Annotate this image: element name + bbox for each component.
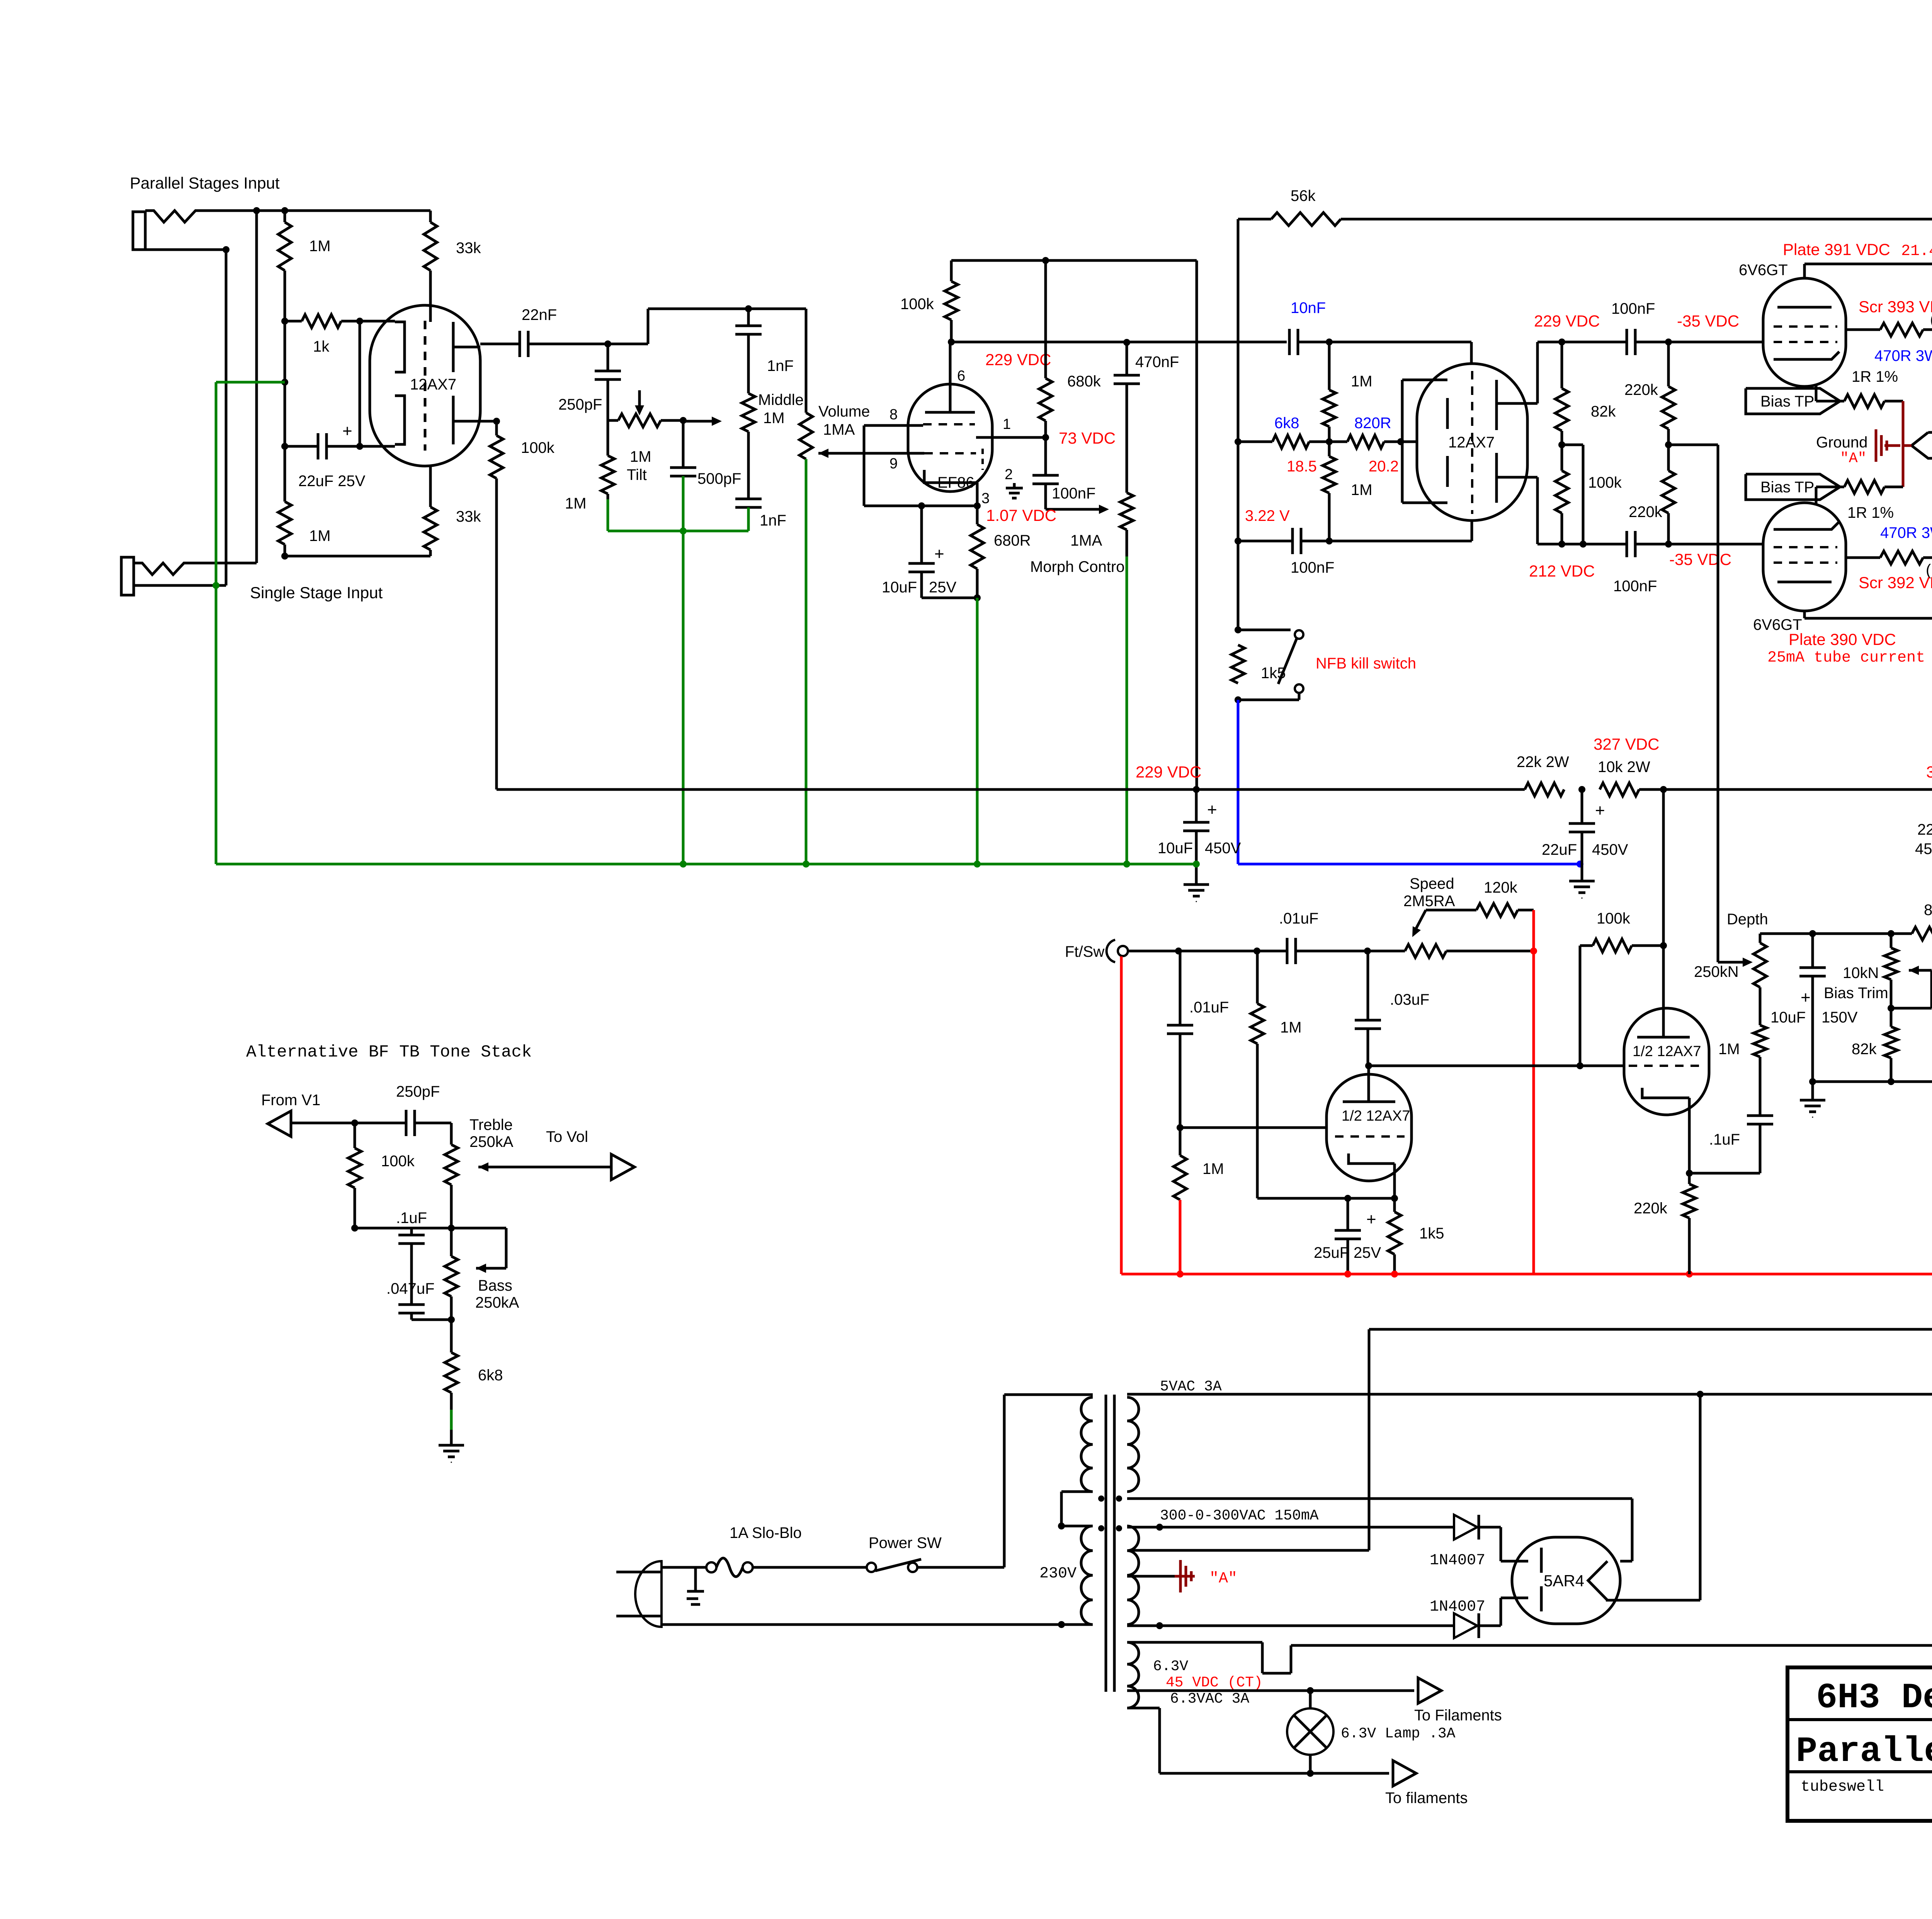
transformer PT 6.3V winding [1127,1642,1139,1708]
wire: PI plate line lower [1537,543,1627,546]
wire: switched live to primary [917,1566,1004,1569]
node: tail node [1235,438,1242,445]
svg-text:470R 3W: 470R 3W [1874,347,1932,364]
resistor 10k 2W [1600,783,1639,796]
svg-text:1R 1%: 1R 1% [1852,368,1898,385]
svg-text:10uF: 10uF [882,579,917,596]
resistor 22k 2W [1525,783,1564,796]
resistor 1M (PI grid lower) [1328,442,1331,456]
tube V6 1/2 12AX7 (osc) [1327,1074,1412,1181]
resistor 1M (lower grid leak) [284,446,286,502]
svg-text:NFB kill switch: NFB kill switch [1316,655,1416,672]
wire: PI plate2 [1497,476,1537,479]
svg-text:1N4007: 1N4007 [1430,1552,1485,1569]
svg-text:150V: 150V [1821,1009,1858,1026]
wire: cathode pin3 [976,483,979,524]
resistor 220k (upper grid) [1667,342,1670,386]
svg-text:100k: 100k [1588,474,1622,491]
wire: primary tap jumper [1061,1490,1093,1493]
resistor 220k (lower grid) [1667,445,1670,471]
potentiometer Treble 250kA [450,1123,453,1145]
wire: green ground from grid node [281,379,288,386]
tube V1 12AX7 [370,305,480,466]
svg-text:1A Slo-Blo: 1A Slo-Blo [730,1524,802,1541]
resistor 100k (V1 plate load) [495,421,498,436]
svg-text:Plate 390 VDC: Plate 390 VDC [1789,630,1896,648]
wire: tilt to middle wiper arrow [683,420,715,423]
svg-text:1M: 1M [1202,1160,1224,1177]
svg-text:+: + [342,422,352,441]
wire: HT bottom to diode [1127,1625,1454,1627]
svg-text:+: + [1207,800,1217,819]
wire: B+ rail 229VDC [497,788,1525,791]
capacitor .1uF (alt) [410,1228,413,1235]
svg-text:73 VDC: 73 VDC [1059,429,1116,447]
node: 1nF top [745,305,752,312]
svg-text:33k: 33k [456,240,481,257]
wire: bias rail [1760,932,1912,935]
svg-text:1M: 1M [565,495,587,512]
resistor 82k (bias top) [1912,927,1932,940]
svg-text:6.3VAC 3A: 6.3VAC 3A [1170,1691,1249,1707]
node: red speed [1530,948,1537,954]
svg-text:Tilt: Tilt [627,466,647,483]
svg-text:Bias Trim: Bias Trim [1824,985,1888,1002]
wire: mains neutral [662,1623,1061,1626]
svg-text:250pF: 250pF [396,1083,440,1100]
5AR4 filament [1588,1561,1607,1600]
wire: EF86 cathode bottom [920,572,923,598]
tube V8 5AR4 rectifier [1512,1537,1620,1624]
wire: trem grid line [1127,950,1287,953]
node: top rail junction b [281,207,288,214]
svg-text:Power SW: Power SW [869,1535,942,1552]
svg-text:45 VDC (CT): 45 VDC (CT) [1166,1674,1263,1691]
svg-text:Treble: Treble [469,1116,513,1133]
wire: osc cathode line [1257,1197,1395,1200]
svg-text:.1uF: .1uF [396,1210,427,1227]
svg-text:100nF: 100nF [1052,485,1095,502]
svg-text:Middle: Middle [758,391,804,408]
svg-text:680R: 680R [994,532,1031,549]
svg-text:22uF: 22uF [1917,821,1932,838]
svg-text:Single Stage Input: Single Stage Input [250,584,383,602]
svg-text:-35 VDC: -35 VDC [1677,312,1739,330]
svg-text:100nF: 100nF [1613,578,1657,595]
capacitor 10uF 450V (preamp filter) [1193,786,1200,793]
capacitor .01uF (shunt) [1179,951,1182,1025]
wire: pin1 to 680k bottom [976,436,1046,439]
potentiometer Speed 2M5RA [1405,944,1446,958]
svg-text:100k: 100k [521,439,555,456]
svg-text:"A": "A" [1840,450,1866,467]
V5 internals [1777,581,1832,584]
svg-text:Scr 392 VDC: Scr 392 VDC [1859,573,1932,592]
wire: morph green down [1126,530,1128,556]
node: V1 grid [356,318,363,325]
svg-text:(.310V): (.310V) [1930,311,1932,328]
node: PI grid2 entry [1397,438,1404,445]
wire: to PI grid corner [1329,341,1471,344]
ground: alt stack [439,1444,464,1447]
svg-text:1k5: 1k5 [1419,1225,1444,1242]
wire: green tone bus [608,530,748,532]
wire: green tone stack left [607,499,609,531]
wire: J1 tip to top rail [209,209,430,212]
ground: EF86 pin2 [1013,483,1016,488]
callout: Bias TP (middle) [1912,432,1932,458]
potentiometer Volume 1MA [805,309,808,413]
node: 100k bottom [1558,541,1565,548]
svg-text:82k: 82k [1852,1041,1877,1058]
svg-text:Plate 391 VDC: Plate 391 VDC [1783,240,1890,259]
wire: 1nF lower green [747,507,750,531]
resistor 33k (lower) [429,466,432,507]
resistor 1M (osc grid leak) [1256,951,1259,1004]
resistor 82k (bias lower) [1890,1008,1893,1027]
svg-text:470nF: 470nF [1135,354,1179,371]
svg-text:500pF: 500pF [697,470,741,487]
svg-text:.1uF: .1uF [1709,1131,1740,1148]
resistor 1k5 (NFB) [1231,645,1245,683]
resistor 470R 3W (screen V5) [1846,556,1880,559]
wire: lower line to tube [1329,540,1472,543]
svg-text:1nF: 1nF [767,357,794,374]
svg-text:5AR4: 5AR4 [1544,1572,1584,1590]
wire: EF86 B+ rail [951,259,1197,262]
wire: 1M to red bus [1179,1200,1182,1274]
V6 cathode hook [1349,1153,1395,1164]
tube V4 6V6GT (upper) [1763,278,1846,386]
svg-text:100k: 100k [900,296,934,313]
capacitor 1nF (upper) [747,309,750,326]
wire: volume green down [805,459,808,864]
node: PI grid node [1326,339,1333,345]
tube V3 12AX7 (phase inverter) [1417,364,1527,521]
node: osc grid [1177,1124,1184,1131]
svg-text:tubeswell: tubeswell [1801,1778,1884,1796]
svg-text:+: + [1595,801,1605,820]
svg-text:Volume: Volume [818,403,870,420]
PI internals [1402,379,1447,381]
node: EF86 plate [948,339,955,345]
svg-text:300-0-300VAC 150mA: 300-0-300VAC 150mA [1160,1507,1319,1524]
wire: mid node to plate2 line [1562,444,1583,446]
svg-text:1/2 12AX7: 1/2 12AX7 [1342,1108,1410,1124]
wire: 5V bottom to rectifier [1127,1497,1632,1500]
node: NFB lower [1235,538,1242,544]
V1 internals: grids/plates/cathodes [395,322,405,372]
capacitor 100nF (NFB) [1291,528,1294,554]
svg-text:450V: 450V [1915,840,1932,857]
svg-text:100nF: 100nF [1291,559,1334,576]
wire: bass bottom [450,1296,453,1352]
svg-text:To Filaments: To Filaments [1414,1707,1502,1724]
node: cathode junction [918,502,925,509]
wire: HT CT to ground A [1127,1575,1175,1578]
wire: up to tone top rail [608,343,648,345]
wire: red trem bus [1120,956,1123,1274]
svg-text:82k: 82k [1591,403,1616,420]
svg-text:100nF: 100nF [1611,300,1655,317]
svg-text:Bias TP: Bias TP [1760,393,1814,410]
wire: rectifier output [1606,1599,1700,1602]
svg-text:-35 VDC: -35 VDC [1669,550,1731,568]
input jack J1 (parallel stages) [133,212,145,250]
svg-text:9: 9 [889,456,898,472]
wire: J1 tip drop to J2 [255,211,258,563]
node: -35V upper [1665,339,1672,345]
diode 1N4007 (HT upper) [1454,1515,1477,1540]
wire: red from 120k [1532,910,1535,951]
transformer PT HT winding 300-0-300 [1127,1526,1139,1625]
resistor 1M (tone stack shunt) [607,420,609,456]
wire: speed wiper from 120k [1426,909,1476,912]
capacitor 1nF (lower) [747,432,750,499]
capacitor 25uF 25V (osc cathode) [1347,1198,1349,1230]
switch: NFB kill switch [1238,629,1291,631]
node: tone stack input [604,340,611,347]
svg-text:6H3 Deluxe (Bone Ray Stack): 6H3 Deluxe (Bone Ray Stack) [1816,1677,1932,1718]
svg-text:2: 2 [1005,466,1013,483]
wire: blue feedback return [1237,700,1240,864]
resistor 680k [1044,260,1047,378]
svg-text:1M: 1M [630,448,651,465]
svg-text:100k: 100k [381,1153,415,1170]
svg-text:82k: 82k [1924,902,1932,919]
svg-text:392 VDC: 392 VDC [1926,763,1932,781]
svg-text:Ft/Sw: Ft/Sw [1065,943,1104,960]
node: 680k top [1042,257,1049,264]
V4 internals [1777,306,1832,309]
svg-text:10nF: 10nF [1291,299,1326,316]
wire: 500pF green down [682,476,685,531]
wire: green vertical to ground bus [682,531,685,864]
resistor 120k [1476,903,1518,917]
svg-text:820R: 820R [1354,415,1391,432]
svg-text:6.3V Lamp .3A: 6.3V Lamp .3A [1341,1725,1456,1742]
svg-text:1N4007: 1N4007 [1430,1598,1485,1616]
wire: osc grid line [1180,1126,1327,1129]
node: blue end [1577,861,1583,868]
svg-text:Parallel Stages Input: Parallel Stages Input [130,174,280,192]
wire: B+ rail feed down to 229VDC line [1196,260,1198,789]
node: PI mid [1558,441,1565,448]
wire: PI plate1 [1497,402,1537,405]
svg-text:1M: 1M [1280,1019,1302,1036]
V6 plate bar [1367,1066,1370,1102]
potentiometer Depth 250kN [1753,943,1767,987]
V7 cathode hook [1642,1088,1689,1098]
resistor 820R [1347,435,1384,448]
svg-text:327 VDC: 327 VDC [1594,735,1659,753]
capacitor 250pF [607,344,609,371]
resistor 6k8 (alt) [445,1352,458,1393]
resistor 680R [971,524,984,569]
wire: bias feed long vertical [1668,444,1718,446]
wire: driver plate [1662,946,1665,1037]
resistor 82k (PI load) [1558,339,1565,345]
svg-text:Scr 393 VDC: Scr 393 VDC [1859,298,1932,316]
potentiometer 10kN Bias Trim [1890,934,1893,948]
node: green at J2 [213,582,219,589]
svg-text:Bias TP: Bias TP [1760,479,1814,496]
wire: screen cap down to morph wiper [1044,484,1047,509]
wire: driver cathode [1688,1098,1691,1173]
wire: cathode into tube [360,445,395,448]
PT core [1105,1395,1107,1692]
resistor 470R 3W (screen V4) [1846,328,1880,331]
svg-text:Speed: Speed [1410,875,1454,892]
wire: V5 cathode [1815,487,1818,505]
svg-text:100k: 100k [1597,910,1631,927]
svg-text:1M: 1M [1718,1041,1740,1058]
svg-text:220k: 220k [1624,381,1658,398]
wire: mains live [662,1566,707,1569]
wire: 5V bottom into tube [1619,1560,1622,1563]
svg-text:10k 2W: 10k 2W [1598,759,1650,776]
svg-text:Depth: Depth [1727,911,1768,928]
wire: treble wiper to To Vol [478,1162,488,1172]
svg-text:.047uF: .047uF [386,1280,435,1297]
svg-text:1M: 1M [763,410,785,427]
potentiometer Middle 1M [747,334,750,393]
wire: EF86 cathode green [976,598,979,864]
wire: osc plate line [1369,1065,1624,1067]
wire: 22nF to tone stack [528,343,608,345]
wire: V4 plate to OT [1803,264,1806,278]
svg-text:20.2: 20.2 [1369,458,1399,475]
wire: V4 cathode [1815,384,1818,401]
svg-text:+: + [1366,1210,1376,1229]
wire: to 6V6 #2 grid [1668,543,1763,546]
svg-text:229 VDC: 229 VDC [1534,312,1600,330]
wire: alt input [291,1122,406,1125]
svg-text:220k: 220k [1629,504,1663,521]
svg-text:1MA: 1MA [1070,532,1102,549]
svg-text:250pF: 250pF [558,396,602,413]
svg-text:250kA: 250kA [469,1133,514,1150]
svg-text:250kN: 250kN [1694,963,1739,980]
lamp 6.3V .3A [1309,1691,1312,1708]
wire: 6.3V CT to filaments [1127,1689,1414,1692]
wire: shunt cap to osc grid [1179,1034,1182,1128]
svg-text:Bass: Bass [478,1277,512,1294]
node: bias mid [1665,441,1672,448]
svg-text:+: + [1801,988,1811,1007]
resistor 220k (driver cathode) [1688,1173,1691,1184]
svg-text:.01uF: .01uF [1279,910,1318,927]
resistor 100k (alt) [354,1123,356,1148]
svg-text:To Vol: To Vol [546,1128,588,1145]
node: top rail junction a [253,207,260,214]
wire: grid node into tube [360,320,395,323]
svg-text:.03uF: .03uF [1390,991,1429,1008]
potentiometer Morph Control 1MA [1126,384,1128,493]
svg-text:1M: 1M [309,238,331,255]
svg-text:1: 1 [1003,416,1011,432]
wire: green ground bus [216,863,1196,866]
svg-text:1MA: 1MA [823,421,855,438]
wire: bottom return [285,555,430,558]
svg-text:3: 3 [981,490,990,507]
wire: V1 grid column [284,321,286,446]
wire: 6.3V top to CT elevate line [1127,1641,1262,1644]
svg-text:6.3V: 6.3V [1153,1658,1188,1675]
capacitor 250pF (alt) [405,1110,408,1136]
wire: PI plate line upper [1537,341,1627,344]
wire: 6.3V bottom to filaments [1309,1755,1312,1773]
ground A (bias measure) [1884,444,1900,447]
svg-text:250kA: 250kA [475,1294,519,1311]
wire: pin8 loop [864,424,923,427]
svg-text:470R 3W: 470R 3W [1880,524,1932,541]
transformer PT primary 230V [1081,1397,1093,1492]
wire: grid/cathode link [359,321,361,446]
svg-text:230V: 230V [1039,1565,1077,1582]
wire: to 6V6 #1 grid [1668,341,1763,344]
resistor 1M (depth chain) [1759,1057,1762,1116]
capacitor 100nF (coupling lower) [1626,531,1628,557]
svg-text:Morph Control: Morph Control [1030,558,1128,575]
svg-text:6k8: 6k8 [478,1367,503,1384]
svg-text:22nF: 22nF [522,306,557,323]
wire: bass wiper loop [476,1264,486,1273]
callout: Bias TP (V5 cathode) [1746,474,1840,500]
svg-text:120k: 120k [1484,879,1518,896]
node: 327VDC [1578,786,1585,793]
capacitor 22nF (coupling) [519,331,521,357]
ground: bias network [1811,1082,1814,1100]
wire: EF86 plate (pin6) up [949,342,952,412]
capacitor 500pF [680,417,687,424]
wire: alt ground stub [450,1393,453,1410]
tube V7 1/2 12AX7 (trem driver) [1624,1008,1709,1115]
svg-text:3.22 V: 3.22 V [1245,507,1290,524]
resistor 1M (PI grid upper) [1328,342,1331,390]
wire: osc cathode [1393,1164,1396,1198]
svg-text:21.4mA tube current: 21.4mA tube current [1901,243,1932,260]
wire: V1 plate upper to 22nF [480,343,520,345]
capacitor 470nF [1123,339,1130,346]
svg-text:1k: 1k [313,338,330,355]
wire: J1 sleeve drop [225,250,228,585]
svg-text:1M: 1M [1351,373,1372,390]
svg-text:6k8: 6k8 [1274,415,1299,432]
capacitor .03uF [1367,951,1369,1020]
capacitor .1uF (trem out) [1689,1172,1760,1175]
node: green bus junctions [680,861,687,868]
diode 1N4007 (HT lower) [1454,1613,1477,1638]
svg-text:To filaments: To filaments [1385,1790,1468,1807]
node: osc plate [1365,1062,1372,1069]
node: -35V lower [1665,541,1672,548]
svg-text:1M: 1M [309,527,331,544]
resistor 6k8 (NFB divider) [1238,441,1272,443]
wire: V1 plate lower to 100k [480,420,497,423]
svg-text:25V: 25V [929,579,956,596]
svg-text:6V6GT: 6V6GT [1739,262,1788,279]
V7 plate bar [1637,1036,1690,1039]
capacitor 10uF 150V (bias left) [1811,934,1814,968]
wire: dark red bias tp vertical [1902,401,1905,487]
svg-text:1nF: 1nF [760,512,786,529]
wire: 5V top / B+ line [1127,1393,1932,1396]
svg-text:18.5: 18.5 [1287,458,1317,475]
capacitor .047uF (alt) [398,1303,425,1306]
svg-text:22uF: 22uF [1542,841,1577,858]
ground: preamp filter [1184,883,1209,886]
